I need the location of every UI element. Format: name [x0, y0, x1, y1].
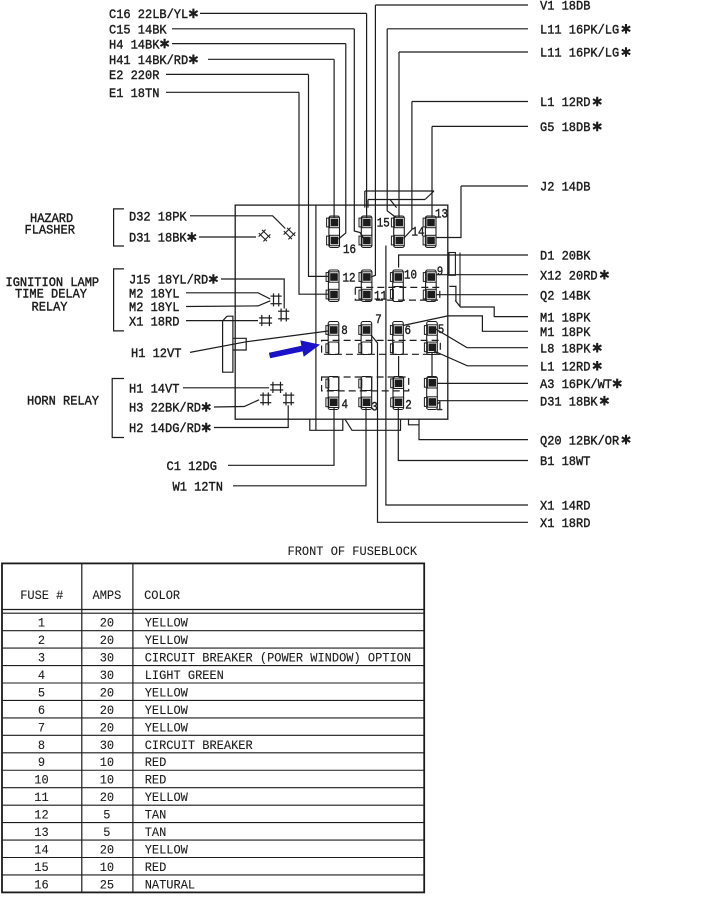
svg-text:M1 18PK: M1 18PK	[540, 310, 591, 325]
svg-text:X1 14RD: X1 14RD	[540, 499, 591, 514]
svg-text:20: 20	[100, 703, 114, 718]
svg-text:J2 14DB: J2 14DB	[540, 180, 591, 195]
svg-text:HORN RELAY: HORN RELAY	[27, 394, 99, 409]
svg-text:20: 20	[100, 790, 114, 805]
svg-text:16: 16	[343, 242, 356, 257]
svg-text:YELLOW: YELLOW	[145, 720, 188, 735]
svg-text:V1 18DB: V1 18DB	[540, 0, 591, 14]
svg-text:L11 16PK/LG: L11 16PK/LG	[540, 46, 619, 61]
svg-text:10: 10	[34, 773, 48, 788]
svg-text:NATURAL: NATURAL	[145, 877, 195, 892]
svg-text:M1 18PK: M1 18PK	[540, 325, 591, 340]
svg-text:H1 12VT: H1 12VT	[131, 346, 182, 361]
svg-text:A3 16PK/WT: A3 16PK/WT	[540, 377, 612, 392]
svg-text:Q2 14BK: Q2 14BK	[540, 288, 591, 303]
svg-text:25: 25	[100, 877, 114, 892]
svg-text:B1 18WT: B1 18WT	[540, 454, 591, 469]
svg-text:RED: RED	[145, 755, 167, 770]
svg-text:FUSE #: FUSE #	[20, 588, 63, 603]
svg-text:5: 5	[103, 808, 110, 823]
svg-text:2: 2	[38, 633, 45, 648]
svg-text:E1 18TN: E1 18TN	[109, 86, 159, 101]
svg-text:RELAY: RELAY	[32, 300, 68, 315]
svg-text:YELLOW: YELLOW	[145, 616, 188, 631]
svg-text:C16 22LB/YL: C16 22LB/YL	[109, 7, 188, 22]
svg-text:10: 10	[100, 773, 114, 788]
svg-text:30: 30	[100, 651, 114, 666]
svg-text:W1 12TN: W1 12TN	[173, 480, 223, 495]
svg-text:L1 12RD: L1 12RD	[540, 360, 591, 375]
svg-text:5: 5	[103, 825, 110, 840]
svg-text:D31 18BK: D31 18BK	[540, 394, 598, 409]
svg-text:2: 2	[405, 398, 412, 413]
svg-text:X12 20RD: X12 20RD	[540, 268, 598, 283]
svg-text:Q20 12BK/OR: Q20 12BK/OR	[540, 433, 619, 448]
svg-text:L8 18PK: L8 18PK	[540, 341, 591, 356]
svg-text:14: 14	[412, 225, 425, 240]
svg-text:1: 1	[38, 616, 45, 631]
svg-text:14: 14	[34, 842, 49, 857]
svg-text:YELLOW: YELLOW	[145, 703, 188, 718]
svg-text:TAN: TAN	[145, 808, 167, 823]
svg-text:20: 20	[100, 633, 114, 648]
svg-text:20: 20	[100, 842, 114, 857]
svg-text:13: 13	[34, 825, 48, 840]
svg-text:M2 18YL: M2 18YL	[129, 300, 179, 315]
svg-text:5: 5	[438, 322, 445, 337]
svg-text:RED: RED	[145, 773, 167, 788]
svg-text:YELLOW: YELLOW	[145, 685, 188, 700]
svg-text:4: 4	[342, 397, 349, 412]
svg-text:YELLOW: YELLOW	[145, 842, 188, 857]
svg-text:AMPS: AMPS	[93, 588, 122, 603]
svg-text:13: 13	[435, 207, 448, 222]
svg-text:6: 6	[38, 703, 45, 718]
svg-text:7: 7	[375, 312, 382, 327]
svg-text:30: 30	[100, 668, 114, 683]
svg-text:5: 5	[38, 685, 45, 700]
svg-text:11: 11	[374, 289, 387, 304]
svg-text:L11 16PK/LG: L11 16PK/LG	[540, 23, 619, 38]
svg-text:4: 4	[38, 668, 45, 683]
svg-text:H41 14BK/RD: H41 14BK/RD	[109, 53, 188, 68]
svg-text:8: 8	[38, 738, 45, 753]
svg-text:H4 14BK: H4 14BK	[109, 37, 160, 52]
svg-text:12: 12	[34, 808, 48, 823]
svg-text:YELLOW: YELLOW	[145, 790, 188, 805]
svg-text:20: 20	[100, 720, 114, 735]
svg-text:G5 18DB: G5 18DB	[540, 120, 591, 135]
svg-text:C1 12DG: C1 12DG	[167, 459, 217, 474]
svg-text:FLASHER: FLASHER	[25, 222, 76, 237]
svg-text:C15 14BK: C15 14BK	[109, 23, 167, 38]
svg-text:X1 18RD: X1 18RD	[129, 314, 180, 329]
svg-text:3: 3	[38, 651, 45, 666]
svg-text:10: 10	[100, 860, 114, 875]
svg-text:9: 9	[38, 755, 45, 770]
svg-text:D32 18PK: D32 18PK	[129, 210, 187, 225]
svg-text:H2 14DG/RD: H2 14DG/RD	[129, 421, 201, 436]
svg-text:H3 22BK/RD: H3 22BK/RD	[129, 401, 201, 416]
svg-text:FRONT OF FUSEBLOCK: FRONT OF FUSEBLOCK	[288, 544, 418, 559]
svg-text:CIRCUIT BREAKER: CIRCUIT BREAKER	[145, 738, 253, 753]
svg-text:20: 20	[100, 616, 114, 631]
svg-text:15: 15	[377, 216, 390, 231]
svg-text:7: 7	[38, 720, 45, 735]
svg-text:LIGHT GREEN: LIGHT GREEN	[145, 668, 224, 683]
svg-text:TAN: TAN	[145, 825, 167, 840]
svg-text:RED: RED	[145, 860, 167, 875]
svg-text:9: 9	[437, 264, 444, 279]
svg-text:D1 20BK: D1 20BK	[540, 249, 591, 264]
svg-text:YELLOW: YELLOW	[145, 633, 188, 648]
svg-text:H1 14VT: H1 14VT	[129, 382, 180, 397]
svg-text:D31 18BK: D31 18BK	[129, 231, 187, 246]
svg-text:10: 10	[100, 755, 114, 770]
svg-text:E2 220R: E2 220R	[109, 68, 160, 83]
svg-text:3: 3	[371, 400, 378, 415]
svg-text:J15 18YL/RD: J15 18YL/RD	[129, 273, 208, 288]
svg-text:16: 16	[34, 877, 48, 892]
svg-text:X1 18RD: X1 18RD	[540, 516, 591, 531]
svg-text:12: 12	[343, 271, 356, 286]
svg-text:30: 30	[100, 738, 114, 753]
svg-text:15: 15	[34, 860, 48, 875]
svg-text:COLOR: COLOR	[144, 588, 180, 603]
svg-text:10: 10	[404, 268, 417, 283]
svg-text:CIRCUIT BREAKER (POWER WINDOW): CIRCUIT BREAKER (POWER WINDOW) OPTION	[145, 651, 411, 666]
svg-text:8: 8	[341, 323, 348, 338]
svg-text:20: 20	[100, 685, 114, 700]
svg-text:11: 11	[34, 790, 49, 805]
svg-text:L1 12RD: L1 12RD	[540, 95, 591, 110]
